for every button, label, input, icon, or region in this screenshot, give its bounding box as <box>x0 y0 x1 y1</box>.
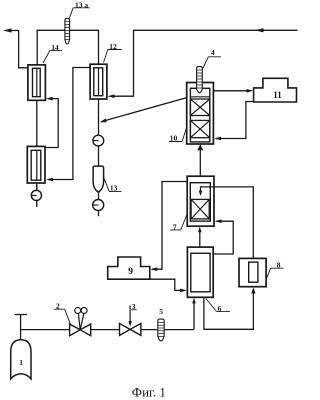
circle under vessel 13 <box>93 200 104 211</box>
arrow into column 7 lower right <box>215 219 222 223</box>
svg-text:4: 4 <box>211 48 215 57</box>
arrow into reboiler right side <box>46 178 53 182</box>
thermometer 4 on column 10 <box>197 67 203 93</box>
circle on column 12 bottoms line <box>93 135 104 146</box>
column 14 <box>28 65 46 100</box>
building 9 <box>108 257 150 279</box>
svg-text:13: 13 <box>110 184 118 193</box>
wire feed from vessel 8 top into column 7 <box>201 187 254 258</box>
gauge stems valve 2 <box>78 313 84 329</box>
arrow up into column 7 bottom <box>198 227 202 233</box>
wire column 14 center line down through reboiler <box>36 65 38 190</box>
packing X box in column 7 <box>191 199 209 219</box>
leader and label 14 <box>43 50 62 63</box>
arrow out left top <box>3 28 11 32</box>
wire below vessel 13 through circle to open end <box>98 192 100 216</box>
wire line B: column 12 top through rotameter 13a into column 14 top <box>37 30 98 65</box>
svg-text:10: 10 <box>170 134 178 143</box>
wire column 7 top to column 10 bottom <box>199 149 201 177</box>
packing X box upper in column 10 <box>190 99 209 116</box>
gauge circles valve 2 <box>75 308 81 314</box>
arrow diagonal tip <box>100 119 107 123</box>
arrow mid line A pointing left <box>255 28 264 32</box>
circle drain under reboiler <box>31 190 41 200</box>
gas cylinder 1 <box>11 340 31 379</box>
wire main gas pipe <box>21 329 194 331</box>
arrow into building 11 <box>246 89 253 93</box>
wire top-left outlet from column 14 <box>9 31 28 68</box>
reboiler vessel under column 14 <box>27 146 45 183</box>
wire open drain below circle under reboiler <box>36 201 38 207</box>
svg-text:5: 5 <box>159 307 163 316</box>
vessel 8 <box>239 258 266 286</box>
rotameter 13a <box>65 18 70 44</box>
svg-text:14: 14 <box>51 43 59 52</box>
arrow into vessel 6 left <box>180 289 187 293</box>
leader and label 2 <box>54 309 70 324</box>
svg-text:13 a: 13 a <box>75 0 88 9</box>
arrow up into column 10 bottom <box>197 144 203 150</box>
leader and label 6 <box>206 299 230 312</box>
leader and label 13a <box>69 8 89 18</box>
svg-text:9: 9 <box>128 267 133 277</box>
wire vessel 6 bottom outlet to vessel 8 bottom <box>204 292 254 329</box>
wire center line through reboiler <box>36 150 38 180</box>
column 7 <box>187 176 214 226</box>
leader and label 8 <box>266 268 283 279</box>
packing X box lower in column 10 <box>190 120 209 137</box>
wire line A from right side down into column 12 <box>110 30 298 96</box>
wire building 9 output to vessel 6 left side <box>150 279 184 290</box>
wire diagonal from column 10 left side to column 12 bottoms line <box>102 98 187 122</box>
svg-text:3: 3 <box>132 302 136 311</box>
column 10 <box>187 83 214 145</box>
arrow up into vessel 6 bottom <box>192 298 196 304</box>
arrow into building 9 <box>150 267 157 271</box>
wire column 10 to building 11 <box>214 90 249 92</box>
svg-text:12: 12 <box>109 42 117 51</box>
arrow up into vessel 8 bottom <box>251 287 255 293</box>
valve 3 <box>120 323 141 335</box>
svg-text:7: 7 <box>173 222 177 231</box>
wire column 12 bottoms line down to vessel 13 <box>98 99 100 167</box>
valve 3 stem <box>129 306 131 322</box>
svg-text:1: 1 <box>19 358 23 367</box>
arrow down inside column 7 <box>199 191 203 196</box>
wire col12 center visible <box>98 68 100 96</box>
leader and label 7 <box>170 215 187 230</box>
leader and label 13 <box>104 178 122 192</box>
cylinder neck and handle <box>15 315 28 340</box>
wire col14 center visible <box>36 68 38 96</box>
wire building 11 down to column 10 bottom right <box>216 102 254 139</box>
wire from reboiler top-right up into column 14 bottom-right <box>45 99 58 148</box>
column 12 <box>90 64 107 99</box>
rotameter 5 <box>158 319 164 341</box>
arrow into column 10 bottom right <box>214 137 221 141</box>
leader and label 12 <box>104 50 122 63</box>
wire gas line up into vessel 6 bottom <box>193 302 195 330</box>
wire vessel 6 top-right up into column 7 lower right <box>213 221 233 254</box>
wire vessel 6 top to column 7 bottom <box>199 232 201 248</box>
svg-text:Фиг. 1: Фиг. 1 <box>132 385 166 400</box>
vessel 6 <box>187 247 213 297</box>
wire column 7 left side to building 9 <box>152 182 187 270</box>
svg-text:8: 8 <box>277 261 281 270</box>
vessel 13 ampoule <box>93 166 104 192</box>
leader and label 4 <box>203 57 221 69</box>
tray line inside column 10 <box>190 96 209 98</box>
arrow down on valve 3 stem <box>128 321 132 327</box>
building 11 <box>254 78 297 102</box>
leader and label 10 <box>169 128 187 142</box>
svg-text:6: 6 <box>218 304 222 313</box>
valve 2 pressure regulator <box>70 324 91 336</box>
svg-text:2: 2 <box>56 302 60 311</box>
arrow into column 14 bottom right <box>46 97 53 101</box>
wire from column 12 upper-left down to reboiler right side <box>48 68 90 180</box>
underline label 3 <box>131 309 136 311</box>
svg-text:11: 11 <box>273 90 282 100</box>
arrow into column 12 right side <box>108 94 115 98</box>
